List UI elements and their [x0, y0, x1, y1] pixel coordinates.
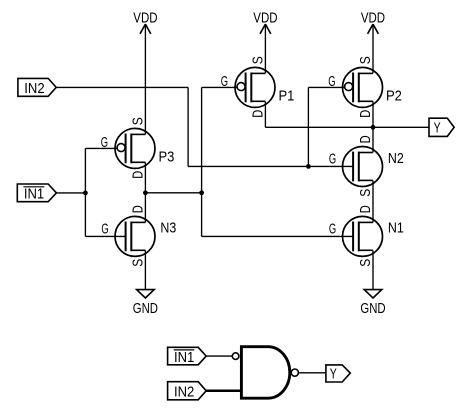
- wire IN1 to nand bubble: [206, 355, 232, 357]
- svg-text:N3: N3: [160, 221, 176, 237]
- wire IN2 to N2 gate: [188, 165, 353, 167]
- svg-text:P1: P1: [279, 88, 295, 104]
- svg-text:G: G: [329, 221, 336, 237]
- svg-text:VDD: VDD: [133, 10, 157, 26]
- svg-text:VDD: VDD: [361, 10, 385, 26]
- wire N3 gate: [85, 235, 125, 237]
- svg-text:P3: P3: [159, 149, 175, 165]
- wire P1 gate: [202, 86, 238, 88]
- power symbol VDD2: [253, 10, 277, 34]
- svg-text:G: G: [221, 74, 228, 90]
- wire VDD2 to P1 source: [264, 24, 266, 73]
- svg-text:S: S: [358, 189, 374, 197]
- wire N3 source to GND: [144, 250, 146, 289]
- transistor P1: [221, 56, 295, 118]
- input tag IN2: [18, 78, 56, 97]
- wire P1 drain down: [264, 101, 266, 127]
- svg-text:S: S: [250, 56, 266, 64]
- wire IN1 gate column vertical: [84, 148, 86, 236]
- junction dot P3/N3 drains: [143, 190, 148, 195]
- wire N1 gate: [202, 235, 354, 237]
- svg-text:IN2: IN2: [24, 81, 44, 97]
- transistor N1: [329, 205, 404, 266]
- inverted input bubble: [232, 353, 239, 360]
- svg-text:GND: GND: [360, 301, 385, 317]
- junction dot IN1 column: [83, 191, 88, 196]
- wire P2 gate horizontal: [308, 86, 344, 88]
- wire nand output to Y: [298, 372, 326, 374]
- transistor N2: [329, 135, 404, 196]
- svg-text:D: D: [358, 135, 374, 143]
- input tag IN1 (nand gate): [168, 347, 207, 366]
- svg-text:Y: Y: [434, 120, 441, 136]
- nand gate U1 body: [241, 347, 289, 399]
- svg-text:D: D: [250, 110, 266, 118]
- wire P2 gate vertical: [307, 87, 309, 166]
- svg-text:S: S: [130, 117, 146, 125]
- wire IN2 to nand gate (thick): [206, 390, 240, 393]
- svg-text:P2: P2: [386, 88, 402, 104]
- wire IN1 to gate column: [56, 192, 85, 194]
- transistor P3: [101, 117, 175, 179]
- power symbol VDD3: [361, 10, 385, 34]
- svg-text:N2: N2: [388, 151, 404, 167]
- svg-text:GND: GND: [133, 301, 158, 317]
- output bubble: [291, 369, 298, 376]
- svg-text:G: G: [101, 221, 108, 237]
- wire N1 source to GND: [372, 250, 374, 289]
- svg-text:IN1: IN1: [174, 350, 194, 366]
- svg-text:S: S: [358, 259, 374, 267]
- wire P2 drain to N2 drain: [372, 101, 374, 152]
- svg-text:Y: Y: [330, 366, 337, 382]
- svg-text:G: G: [329, 152, 336, 168]
- wire P3 gate: [85, 147, 117, 149]
- input tag IN1 (inverted): [17, 184, 56, 203]
- wire Y horizontal: [265, 126, 428, 128]
- svg-text:IN2: IN2: [174, 385, 194, 401]
- wire P3 drain to N3 drain: [144, 162, 146, 222]
- wire N2 source to N1 drain: [372, 181, 374, 223]
- transistor N3: [101, 205, 176, 266]
- wire IN2 horizontal: [56, 86, 188, 88]
- transistor P2: [328, 56, 402, 118]
- input tag IN2 (nand gate): [168, 382, 207, 401]
- wire inverter output vertical: [201, 87, 203, 236]
- wire VDD3 to P2 source: [372, 24, 374, 73]
- wire IN2 vertical: [187, 87, 189, 166]
- output tag Y (nand gate): [326, 365, 350, 383]
- svg-text:D: D: [130, 205, 146, 213]
- svg-text:S: S: [358, 56, 374, 64]
- junction dot IN2 / P2 gate: [306, 164, 311, 169]
- svg-text:D: D: [358, 110, 374, 118]
- svg-text:N1: N1: [388, 221, 404, 237]
- svg-text:S: S: [130, 259, 146, 267]
- svg-text:D: D: [358, 205, 374, 213]
- ground symbol GND right: [360, 290, 385, 317]
- svg-text:IN1: IN1: [24, 187, 44, 203]
- svg-text:VDD: VDD: [253, 10, 277, 26]
- svg-text:G: G: [328, 74, 335, 90]
- ground symbol GND left: [133, 290, 158, 317]
- junction dot Y node: [371, 125, 376, 130]
- power symbol VDD1: [133, 10, 157, 34]
- junction dot inverter output: [199, 190, 204, 195]
- wire VDD1 to P3 source: [144, 24, 146, 134]
- svg-text:D: D: [130, 171, 146, 179]
- svg-text:G: G: [101, 135, 108, 151]
- wire drain node to inverter output node: [145, 192, 201, 194]
- output tag Y: [429, 118, 454, 136]
